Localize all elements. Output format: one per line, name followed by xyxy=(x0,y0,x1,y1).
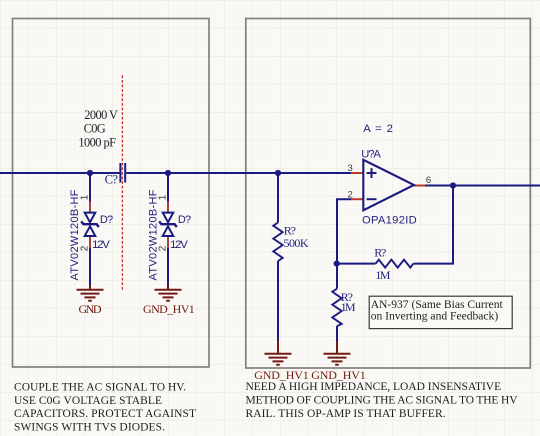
svg-text:GND: GND xyxy=(78,302,101,316)
svg-text:GND_HV1: GND_HV1 xyxy=(143,302,195,316)
svg-text:D?: D? xyxy=(100,214,113,226)
svg-text:METHOD OF COUPLING THE AC SIGN: METHOD OF COUPLING THE AC SIGNAL TO THE … xyxy=(246,395,519,407)
svg-text:on Inverting and Feedback): on Inverting and Feedback) xyxy=(371,309,499,322)
svg-text:A = 2: A = 2 xyxy=(363,123,393,135)
svg-text:ATV02W120B-HF: ATV02W120B-HF xyxy=(69,189,81,280)
svg-text:12V: 12V xyxy=(170,239,188,251)
svg-text:2000 V: 2000 V xyxy=(84,108,118,122)
svg-text:1: 1 xyxy=(158,194,169,200)
svg-text:GND_HV1: GND_HV1 xyxy=(254,368,309,382)
svg-text:12V: 12V xyxy=(92,239,110,251)
svg-text:1000 pF: 1000 pF xyxy=(78,136,116,150)
svg-text:1M: 1M xyxy=(375,268,390,282)
svg-text:2: 2 xyxy=(80,245,91,251)
svg-text:1: 1 xyxy=(80,194,91,200)
svg-text:OPA192ID: OPA192ID xyxy=(362,215,417,227)
svg-text:1M: 1M xyxy=(341,300,356,314)
svg-text:ATV02W120B-HF: ATV02W120B-HF xyxy=(147,189,159,280)
svg-text:C?: C? xyxy=(105,172,119,186)
svg-text:COUPLE THE AC SIGNAL TO HV.: COUPLE THE AC SIGNAL TO HV. xyxy=(14,382,186,394)
svg-text:3: 3 xyxy=(348,163,353,174)
svg-text:2: 2 xyxy=(348,189,353,200)
svg-text:GND_HV1: GND_HV1 xyxy=(311,368,366,382)
svg-text:U?A: U?A xyxy=(361,149,381,161)
svg-text:D?: D? xyxy=(178,214,191,226)
svg-text:RAIL. THIS OP-AMP IS THAT BUFF: RAIL. THIS OP-AMP IS THAT BUFFER. xyxy=(246,408,446,420)
svg-text:CAPACITORS. PROTECT AGAINST: CAPACITORS. PROTECT AGAINST xyxy=(14,408,196,420)
svg-text:R?: R? xyxy=(374,246,386,260)
svg-text:USE C0G VOLTAGE STABLE: USE C0G VOLTAGE STABLE xyxy=(14,395,162,407)
svg-text:C0G: C0G xyxy=(84,121,106,135)
svg-text:NEED A HIGH IMPEDANCE, LOAD IN: NEED A HIGH IMPEDANCE, LOAD INSENSATIVE xyxy=(246,381,502,393)
svg-text:6: 6 xyxy=(426,175,431,186)
svg-text:2: 2 xyxy=(158,245,169,251)
svg-text:500K: 500K xyxy=(284,236,309,250)
svg-text:SWINGS WITH TVS DIODES.: SWINGS WITH TVS DIODES. xyxy=(14,421,165,433)
